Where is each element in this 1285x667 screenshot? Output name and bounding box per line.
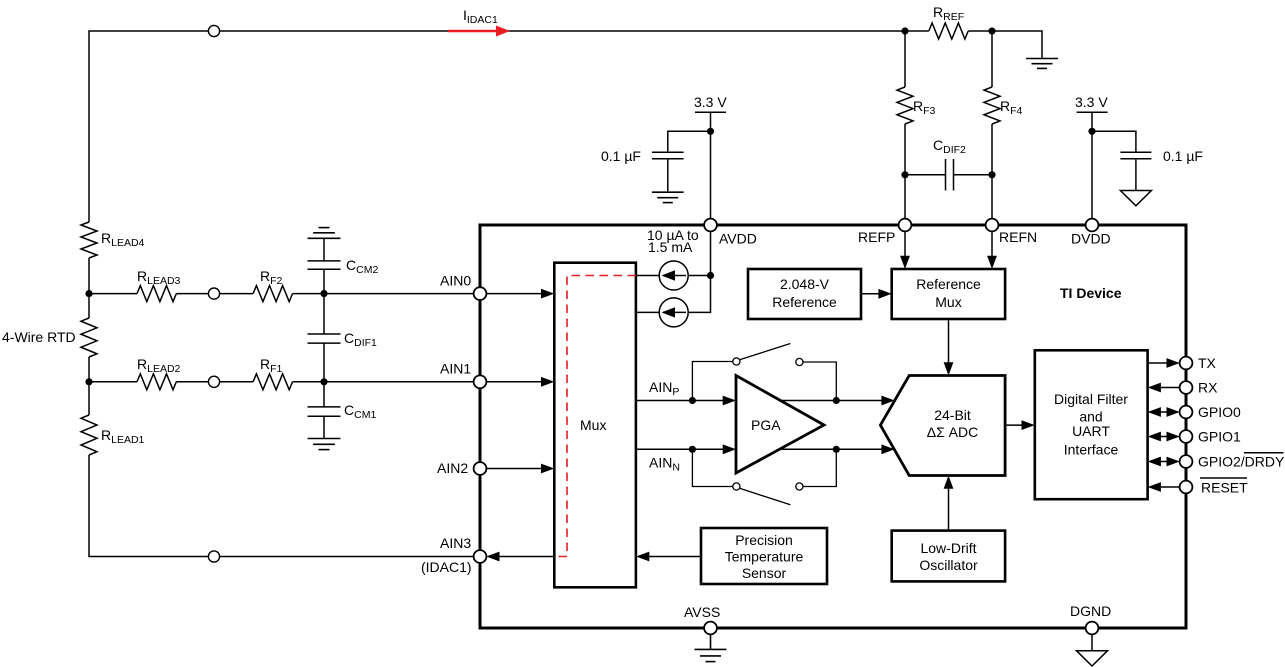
pin RESET [1180,481,1193,494]
node circle AIN1 row [208,376,219,387]
svg-text:GPIO1: GPIO1 [1198,429,1241,445]
pin GPIO1 [1180,430,1193,443]
pin AIN3 [474,550,487,563]
Digital Filter and UART Interface box [1035,350,1148,499]
pin REFN [986,219,999,232]
wire AIN1 row [89,381,474,383]
pin GPIO2/DRDY [1180,455,1193,468]
svg-text:Digital Filter: Digital Filter [1054,391,1128,407]
Precision Temperature Sensor box [701,528,827,584]
wire GPIO0 double arrow [1148,407,1180,417]
pin DVDD [1086,219,1099,232]
resistor RLEAD4 [81,222,97,258]
pin AVSS [704,622,717,635]
svg-text:AVSS: AVSS [684,604,720,620]
svg-text:AIN2: AIN2 [437,460,468,476]
wire AINN (Mux to PGA) with arrow [636,444,736,454]
pin TX [1180,357,1193,370]
pin GPIO0 [1180,406,1193,419]
junction CDIF2 left [901,171,908,178]
wire oscillator to ADC with arrow [944,476,954,531]
resistor RF3 [897,87,913,124]
junction DVDD cap branch [1088,128,1095,135]
svg-text:0.1 µF: 0.1 µF [1163,148,1203,164]
capacitor CCM1 [308,382,341,439]
wire TX with arrow out [1148,358,1180,368]
junction PGA output bottom [833,446,840,453]
ground (AVSS) [695,634,727,661]
svg-text:24-Bit: 24-Bit [934,407,971,423]
svg-text:Mux: Mux [580,417,606,433]
junction cap chain AIN0 [320,290,327,297]
2.048-V Reference box [748,269,861,319]
node circle AIN3 row [208,551,219,562]
ground triangle (DVDD cap) [1120,191,1151,206]
bypass switch top-right wiring [803,362,836,401]
switch blade bottom [740,488,791,505]
svg-text:AIN0: AIN0 [440,273,471,289]
wire AIN0 into Mux with arrow [486,289,554,299]
junction CDIF2 right [988,171,995,178]
node circle AIN0 row [208,288,219,299]
current direction arrow IDAC1 (red) [448,26,510,37]
bypass switch bottom-right wiring [803,449,836,486]
node open circle on top wire [208,25,219,36]
ADC pentagon 24-Bit [880,376,1005,476]
resistor RF4 [984,87,1000,124]
wire AIN1 into Mux with arrow [486,377,554,387]
pin REFP [899,219,912,232]
svg-text:Low-Drift: Low-Drift [920,540,976,556]
resistor RLEAD1 [81,415,97,455]
junction AVDD cap branch [707,128,714,135]
pin AVDD [704,219,717,232]
junction AINP [689,397,696,404]
wire GPIO2 double arrow [1148,457,1180,467]
junction current source top [707,272,714,279]
junction cap chain AIN1 [320,378,327,385]
supply 3.3V (DVDD) [1077,112,1108,219]
svg-text:3.3 V: 3.3 V [694,94,727,110]
Low-Drift Oscillator box [892,531,1005,582]
svg-text:GPIO0: GPIO0 [1198,404,1241,420]
pin AIN0 [474,287,487,300]
wire REFP branch vertical [904,31,906,219]
junction RREF left [901,27,908,34]
svg-text:DVDD: DVDD [1071,231,1111,247]
svg-text:1.5 mA: 1.5 mA [648,239,693,255]
junction RREF right [988,27,995,34]
ground (AVDD cap) [652,192,684,202]
wire RREF left node to REFP branch [905,30,929,32]
junction PGA output top [833,397,840,404]
svg-text:GPIO2/DRDY: GPIO2/DRDY [1198,454,1285,470]
resistor RLEAD2 [137,374,176,390]
svg-text:REFN: REFN [999,229,1037,245]
capacitor CCM2 [308,238,341,293]
svg-text:(IDAC1): (IDAC1) [421,559,472,575]
junction RTD top (AIN0 row) [85,290,92,297]
resistor RREF [929,23,968,39]
svg-text:ΔΣ ADC: ΔΣ ADC [927,424,978,440]
svg-text:Reference: Reference [772,294,837,310]
wire AIN3 row (bottom return) [89,455,474,557]
ground triangle (DGND) [1077,634,1108,666]
wire REFP pin to Reference Mux with arrow [900,231,910,269]
switch contact circle bottom-left [733,483,740,490]
svg-text:Interface: Interface [1064,442,1119,458]
switch blade top [740,344,791,360]
svg-text:AIN1: AIN1 [440,361,471,377]
wire temp sensor to Mux with arrow [636,552,701,562]
wire AVDD internal to current sources [636,231,711,312]
wire RESET with arrow in [1148,482,1180,492]
svg-text:4-Wire RTD: 4-Wire RTD [2,329,76,345]
red dashed IDAC path [555,276,636,557]
wire Mux to AIN3 with arrow (out) [486,552,554,562]
resistor RF1 [253,374,292,390]
switch contact circle top-left [733,358,740,365]
svg-text:UART: UART [1072,423,1110,439]
ground (RREF) [1026,59,1058,69]
capacitor 0.1uF (DVDD) [1092,131,1151,190]
svg-text:TX: TX [1198,355,1217,371]
bypass switch top-left wiring [692,362,732,401]
switch contact circle top-right [796,358,803,365]
wire GPIO1 double arrow [1148,432,1180,442]
Mux box [554,263,636,588]
svg-text:AIN3: AIN3 [440,535,471,551]
svg-text:RX: RX [1198,380,1218,396]
switch contact circle bottom-right [796,483,803,490]
op-amp PGA triangle [736,376,824,474]
supply 3.3V (AVDD) [695,112,726,219]
Reference Mux box [892,269,1005,319]
svg-text:PGA: PGA [751,417,781,433]
pin RX [1180,381,1193,394]
wire RX with arrow in [1148,383,1180,393]
wire top IDAC1 loop (left vertical + top horizontal) [89,31,905,415]
wire ADC to Digital Filter with arrow [1005,420,1035,430]
TI Device box [480,225,1186,628]
svg-text:2.048-V: 2.048-V [780,276,830,292]
current source IDAC top [659,261,688,290]
svg-text:Sensor: Sensor [742,565,787,581]
wire Reference Mux to ADC with arrow [944,319,954,376]
pin AIN2 [474,462,487,475]
wire REFN pin to Reference Mux with arrow [987,231,997,269]
capacitor CDIF2 [905,159,992,191]
wire PGA output bottom to ADC with arrow [779,444,895,454]
ground (below CCM1) [308,439,341,450]
junction RTD bottom (AIN1 row) [85,378,92,385]
junction AINN [689,446,696,453]
ground (above CCM2, inverted) [308,228,341,239]
current source IDAC bottom [659,298,688,327]
svg-text:Mux: Mux [935,294,961,310]
wire PGA output top to ADC with arrow [779,396,895,406]
svg-text:DGND: DGND [1070,603,1111,619]
label GPIO2/DRDY with overline [1198,453,1285,470]
svg-text:Temperature: Temperature [725,549,804,565]
capacitor CDIF1 [308,294,341,382]
svg-text:RESET: RESET [1201,480,1248,496]
svg-text:AVDD: AVDD [719,231,757,247]
svg-text:REFP: REFP [858,229,895,245]
svg-text:0.1 µF: 0.1 µF [601,148,641,164]
label RESET with overline [1200,478,1248,496]
capacitor 0.1uF (AVDD) [652,131,711,192]
bypass switch bottom-left wiring [692,449,732,486]
wire REFN branch vertical [991,31,993,219]
wire RREF right to ground [968,31,1042,59]
wire AIN2 into Mux with arrow [486,464,554,474]
pin AIN1 [474,375,487,388]
resistor RF2 [253,286,292,302]
svg-text:Reference: Reference [916,276,981,292]
svg-text:Oscillator: Oscillator [919,557,978,573]
svg-text:TI Device: TI Device [1060,285,1122,301]
resistor RTD element [81,318,97,357]
svg-text:3.3 V: 3.3 V [1075,94,1108,110]
wire AINP (Mux to PGA) with arrow [636,396,736,406]
svg-text:Precision: Precision [735,532,793,548]
resistor RLEAD3 [137,286,176,302]
pin DGND [1086,622,1099,635]
wire 2.048V ref to Reference Mux with arrow [861,289,892,299]
wire AIN0 row [89,293,474,295]
